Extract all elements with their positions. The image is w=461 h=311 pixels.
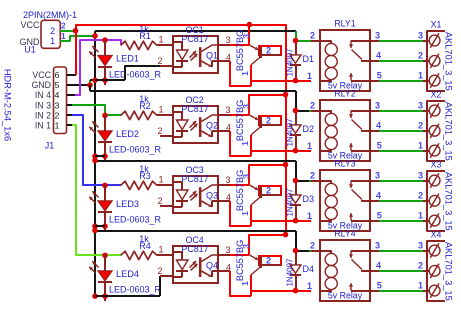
wire J1 pin3 stub xyxy=(67,104,72,106)
svg-text:IN 3: IN 3 xyxy=(35,100,51,110)
wire RLY2 contact stub 1 xyxy=(370,110,379,112)
OC2 collector xyxy=(201,115,217,122)
junction GND rail / channel 4 run xyxy=(92,228,98,234)
wire U1 pin1 to GND rail xyxy=(60,36,95,41)
svg-text:2: 2 xyxy=(266,45,271,55)
wire RLY3 contact stub 1 xyxy=(370,180,379,182)
svg-text:5v Relay: 5v Relay xyxy=(328,291,363,301)
svg-text:5: 5 xyxy=(55,80,60,90)
svg-text:X2: X2 xyxy=(431,90,442,100)
svg-text:GND: GND xyxy=(31,80,51,90)
junction LED2 cathode xyxy=(102,153,108,159)
wire RLY1 to X1 terminal 1 xyxy=(379,40,423,42)
relay RLY2 coil bottom lead xyxy=(320,150,331,151)
op-amp 0 placeholder OC3 box xyxy=(173,176,218,213)
svg-text:RLY1: RLY1 xyxy=(334,18,355,28)
svg-text:5: 5 xyxy=(377,210,382,220)
junction U1 GND on rail xyxy=(92,33,98,39)
op-amp 0 placeholder OC4 box xyxy=(173,246,218,283)
svg-text:PC817: PC817 xyxy=(181,244,208,254)
wire J1 pin6 stub xyxy=(67,74,76,76)
svg-text:1N4007: 1N4007 xyxy=(285,48,294,77)
svg-text:PC817: PC817 xyxy=(181,34,208,44)
wire J1 pin2 stub xyxy=(67,114,72,116)
junction GND rail LED4 xyxy=(92,293,98,299)
relay RLY2 NC contact xyxy=(351,150,370,152)
relay RLY3 common contact xyxy=(351,180,370,182)
relay RLY2 box xyxy=(320,100,370,161)
svg-text:X3: X3 xyxy=(431,160,442,170)
transistor Q2 base lead xyxy=(260,124,281,126)
svg-text:3: 3 xyxy=(225,105,230,115)
svg-text:3: 3 xyxy=(418,240,423,250)
junction D3 / RLY3 coil+ xyxy=(293,218,299,224)
junction VCC rail channel 2 xyxy=(283,92,289,98)
relay RLY4 coil top lead xyxy=(311,251,331,254)
OC3 collector xyxy=(201,185,217,192)
transistor Q2 base bar xyxy=(259,116,262,127)
relay RLY3 NC contact xyxy=(351,220,370,222)
wire OC4 pin2 to GND xyxy=(159,276,161,296)
wire RLY3 contact stub 3 xyxy=(370,220,379,222)
wire J1 pin4 stub xyxy=(67,94,75,96)
OC4 internal LED leads xyxy=(181,252,183,260)
relay RLY4 NC contact xyxy=(351,290,370,292)
wire GND run channel 3 xyxy=(95,160,296,162)
OC2 photon arrow 2 xyxy=(191,124,198,131)
wire OC3 pin4 to Q3 xyxy=(230,201,251,226)
connector X1 bracket xyxy=(427,31,445,91)
OC2 emitter xyxy=(201,131,207,135)
wire Q3 collector down xyxy=(250,205,252,226)
resistor R1 1k xyxy=(121,41,157,49)
wire RLY4 contact stub 2 xyxy=(370,270,379,272)
transistor Q3 base lead xyxy=(260,194,281,196)
svg-text:2: 2 xyxy=(310,100,315,110)
junction LED4 cathode xyxy=(102,293,108,299)
svg-text:2: 2 xyxy=(310,240,315,250)
svg-text:LED3: LED3 xyxy=(116,199,139,209)
junction D1 / RLY1 coil- xyxy=(293,38,299,44)
diode D4 top lead xyxy=(295,251,297,265)
diode D3 bottom lead xyxy=(295,205,297,221)
svg-text:2: 2 xyxy=(418,121,423,131)
transistor Q1 base bar xyxy=(259,46,262,57)
wire RLY4 pin2 (coil-) xyxy=(309,250,311,252)
svg-text:1: 1 xyxy=(158,174,163,184)
resistor R2 1k xyxy=(121,111,157,119)
wire GND drop to RLY4 coil xyxy=(296,231,309,251)
wire OC4 pin3 to Q4 emitter xyxy=(230,254,249,256)
LED1 cathode lead xyxy=(104,67,106,85)
OC3 pin3 stub xyxy=(218,184,230,186)
wire U1 pin2 stub (VCC) xyxy=(60,30,76,32)
svg-text:2: 2 xyxy=(418,261,423,271)
wire OC1 pin3 to Q1 emitter xyxy=(230,44,249,46)
wire VCC to Q1 emitter xyxy=(248,25,250,45)
svg-text:X1: X1 xyxy=(431,20,442,30)
svg-text:1: 1 xyxy=(240,281,250,286)
relay RLY1 coil bottom lead xyxy=(320,80,331,81)
svg-text:2: 2 xyxy=(418,51,423,61)
svg-text:3: 3 xyxy=(241,104,251,109)
wire GND jog horizontal xyxy=(90,79,95,81)
junction GND rail LED1 xyxy=(92,77,98,83)
svg-text:4: 4 xyxy=(376,51,381,61)
OC2 pin3 stub xyxy=(218,114,230,116)
svg-text:3: 3 xyxy=(225,35,230,45)
wire RLY3 to X3 terminal 2 xyxy=(379,200,423,202)
wire J1 pin5 stub (GND) xyxy=(67,84,90,86)
svg-text:1: 1 xyxy=(158,34,163,44)
wire Q4 collector down xyxy=(250,275,252,296)
wire RLY2 to X2 terminal 2 xyxy=(379,130,423,132)
wire GND run channel 1 xyxy=(95,30,296,32)
junction input / LED2 anode xyxy=(102,113,108,119)
relay RLY2 NO contact xyxy=(362,130,370,131)
connector X3 screw terminal 1 xyxy=(429,175,440,186)
wire RLY1 to X1 terminal 3 xyxy=(379,80,423,82)
relay RLY2 common contact xyxy=(351,110,370,112)
connector X1 screw terminal 3 xyxy=(429,75,440,86)
transistor Q3 base bar xyxy=(259,186,262,197)
wire RLY1 pin2 (coil-) xyxy=(296,40,311,42)
OC4 photon arrow 1 xyxy=(190,261,197,268)
relay RLY1 NC contact xyxy=(351,80,370,82)
wire Q3 collector to RLY3 pin1 xyxy=(251,220,311,222)
svg-text:LED2: LED2 xyxy=(116,129,139,139)
junction D2 / RLY2 coil- xyxy=(293,108,299,114)
junction D4 / RLY4 coil+ xyxy=(293,288,299,294)
LED2 cathode lead xyxy=(104,142,106,161)
relay RLY4 switch blade xyxy=(352,260,363,270)
junction D3 / RLY3 coil- xyxy=(293,178,299,184)
relay RLY3 box xyxy=(320,170,370,231)
svg-text:2: 2 xyxy=(310,170,315,180)
transistor Q4 collector diagonal xyxy=(251,267,260,275)
transistor Q2 pin2 box xyxy=(259,116,281,125)
OC4 pin4 stub xyxy=(218,270,230,272)
resistor R4 1k xyxy=(121,251,157,259)
wire Q1 collector to RLY1 pin1 xyxy=(251,80,311,82)
svg-text:Q1: Q1 xyxy=(206,51,218,61)
svg-text:R3: R3 xyxy=(139,171,151,181)
relay RLY4 NO contact xyxy=(362,270,370,271)
junction VCC rail channel 4 xyxy=(283,232,289,238)
svg-text:AKL701_3_15: AKL701_3_15 xyxy=(443,242,453,301)
svg-text:VCC: VCC xyxy=(32,70,51,80)
diode D4 cathode bar xyxy=(290,274,301,276)
svg-text:Q4: Q4 xyxy=(206,261,218,271)
connector X4 bracket xyxy=(427,241,445,301)
connector X4 screw terminal 1 xyxy=(429,245,440,256)
svg-text:D3: D3 xyxy=(303,194,315,204)
connector X2 bracket xyxy=(427,101,445,161)
junction input / LED4 anode xyxy=(102,253,108,259)
svg-text:1: 1 xyxy=(50,36,55,46)
LED1 cathode bar xyxy=(98,66,112,68)
svg-text:2PIN(2MM)-1: 2PIN(2MM)-1 xyxy=(23,10,77,20)
svg-text:RLY3: RLY3 xyxy=(334,158,355,168)
svg-text:4: 4 xyxy=(376,191,381,201)
LED2 emission arrow 1 xyxy=(92,121,98,127)
OC3 photon arrow 1 xyxy=(190,191,197,198)
wire J1 pin1 stub xyxy=(67,124,72,126)
transistor Q2 collector diagonal xyxy=(251,127,260,135)
wire RLY1 to X1 terminal 2 xyxy=(379,60,423,62)
connector X2 screw terminal 3 xyxy=(429,145,440,156)
connector U1 body xyxy=(41,20,60,48)
OC4 pin3 stub xyxy=(218,254,230,256)
wire OC3 pin3 to Q3 emitter xyxy=(230,184,249,186)
transistor Q3 collector diagonal xyxy=(251,197,260,205)
svg-text:2: 2 xyxy=(157,266,162,276)
wire LED1 cathode to GND rail xyxy=(95,79,125,81)
wire OC2 pin3 to Q2 emitter xyxy=(230,114,249,116)
svg-text:3: 3 xyxy=(241,244,251,249)
OC3 internal LED leads xyxy=(181,182,183,190)
diode D1 cathode bar xyxy=(290,64,301,66)
svg-text:IN 1: IN 1 xyxy=(35,120,51,130)
junction GND rail / channel 3 run xyxy=(92,158,98,164)
junction D1 / RLY1 coil+ xyxy=(293,78,299,84)
connector X3 screw terminal 3 xyxy=(429,215,440,226)
svg-text:D4: D4 xyxy=(303,264,315,274)
svg-text:4: 4 xyxy=(226,262,231,272)
OC1 photon arrow 1 xyxy=(190,51,197,58)
op-amp 0 placeholder OC1 box xyxy=(173,36,218,73)
svg-text:1: 1 xyxy=(307,71,312,81)
svg-text:U1: U1 xyxy=(24,45,36,55)
svg-text:LED-0603_R: LED-0603_R xyxy=(109,215,162,225)
OC1 emitter xyxy=(201,61,207,65)
OC2 pin4 stub xyxy=(218,130,230,132)
svg-text:3: 3 xyxy=(225,175,230,185)
svg-text:R2: R2 xyxy=(139,101,151,111)
LED4 emission arrow 2 xyxy=(89,267,95,273)
relay RLY3 coil top lead xyxy=(311,181,331,184)
wire Q1 collector down xyxy=(250,65,252,86)
svg-text:4: 4 xyxy=(376,121,381,131)
wire RLY4 contact stub 1 xyxy=(370,250,379,252)
wire GND run channel 2 xyxy=(90,90,296,92)
svg-text:LED4: LED4 xyxy=(116,269,139,279)
OC1 photon arrow 2 xyxy=(191,54,198,61)
svg-text:LED-0603_R: LED-0603_R xyxy=(109,145,162,155)
LED1 emission arrow 2 xyxy=(89,51,95,57)
wire RLY4 to X4 terminal 2 xyxy=(379,270,423,272)
wire GND drop to RLY1 coil xyxy=(295,31,297,41)
wire VCC to Q4 emitter xyxy=(249,235,286,255)
connector J1 body xyxy=(54,67,67,134)
connector X2 screw terminal 1 xyxy=(429,105,440,116)
OC3 photon arrow 2 xyxy=(191,194,198,201)
OC1 pin1 stub xyxy=(160,44,173,46)
wire RLY4 to X4 terminal 3 xyxy=(379,290,423,292)
svg-text:PC817: PC817 xyxy=(181,174,208,184)
LED3 emission arrow 1 xyxy=(92,191,98,197)
relay RLY3 switch blade xyxy=(352,190,363,200)
OC3 pin4 stub xyxy=(218,200,230,202)
OC4 pin1 stub xyxy=(160,254,173,256)
connector X2 screw terminal 2 xyxy=(429,125,440,136)
wire RLY3 contact stub 2 xyxy=(370,200,379,202)
svg-text:1: 1 xyxy=(158,244,163,254)
diode D3 top lead xyxy=(295,181,297,195)
relay RLY3 NO contact xyxy=(362,200,370,201)
svg-text:HDR-M-2.54_1x6: HDR-M-2.54_1x6 xyxy=(3,69,13,141)
junction D2 / RLY2 coil+ xyxy=(293,148,299,154)
relay RLY2 switch blade xyxy=(352,120,363,130)
svg-text:2: 2 xyxy=(310,30,315,40)
OC1 internal LED leads xyxy=(181,42,183,50)
LED4 cathode lead xyxy=(104,282,106,301)
svg-text:R4: R4 xyxy=(139,241,151,251)
wire RLY2 contact stub 3 xyxy=(370,150,379,152)
svg-text:1: 1 xyxy=(418,70,423,80)
svg-text:3: 3 xyxy=(375,30,380,40)
relay RLY3 coil bottom lead xyxy=(320,220,331,221)
svg-text:3: 3 xyxy=(418,170,423,180)
svg-text:1: 1 xyxy=(240,141,250,146)
svg-text:3: 3 xyxy=(225,245,230,255)
svg-text:1: 1 xyxy=(55,120,60,130)
svg-text:D1: D1 xyxy=(303,54,315,64)
relay RLY4 box xyxy=(320,240,370,301)
junction LED3 cathode xyxy=(102,223,108,229)
junction LED1 cathode xyxy=(102,77,108,83)
OC1 collector xyxy=(201,45,217,52)
LED3 cathode bar xyxy=(98,211,112,213)
wire Q2 collector to RLY2 pin1 xyxy=(251,150,311,152)
wire GND drop to RLY2 coil xyxy=(296,91,309,111)
svg-text:1N4007: 1N4007 xyxy=(285,118,294,147)
LED2 emission arrow 2 xyxy=(89,127,95,133)
svg-text:3: 3 xyxy=(241,174,251,179)
svg-text:2: 2 xyxy=(157,126,162,136)
svg-text:1: 1 xyxy=(240,211,250,216)
svg-text:1: 1 xyxy=(418,140,423,150)
LED2 anode lead xyxy=(104,115,106,131)
svg-text:2: 2 xyxy=(61,22,66,31)
wire RLY3 to X3 terminal 3 xyxy=(379,220,423,222)
svg-text:AKL701_3_15: AKL701_3_15 xyxy=(443,172,453,231)
junction D4 / RLY4 coil- xyxy=(293,248,299,254)
transistor Q1 base lead xyxy=(260,54,281,56)
wire IN2 (blue) J1 pin2 to R3 xyxy=(72,115,121,185)
OC4 photon arrow 2 xyxy=(191,264,198,271)
svg-text:IN 2: IN 2 xyxy=(35,110,51,120)
wire OC2 pin4 to Q2 xyxy=(230,131,251,156)
op-amp 0 placeholder OC2 box xyxy=(173,106,218,143)
relay RLY1 switch blade xyxy=(352,50,363,60)
svg-text:4: 4 xyxy=(226,122,231,132)
svg-text:6: 6 xyxy=(55,70,60,80)
relay RLY1 common contact xyxy=(351,40,370,42)
svg-text:1: 1 xyxy=(240,71,250,76)
OC4 pin2 stub xyxy=(160,275,173,277)
svg-text:LED1: LED1 xyxy=(116,54,139,64)
wire VCC rail from J1 pin6 across top and down right side xyxy=(76,25,286,235)
svg-text:3: 3 xyxy=(375,100,380,110)
svg-text:3: 3 xyxy=(375,240,380,250)
svg-text:Q2: Q2 xyxy=(206,121,218,131)
OC4 collector xyxy=(201,255,217,262)
svg-text:J1: J1 xyxy=(45,141,55,151)
OC3 pin2 stub xyxy=(160,205,173,207)
svg-text:1: 1 xyxy=(307,211,312,221)
wire VCC to Q2 emitter xyxy=(249,95,286,115)
wire RLY1 contact stub 1 xyxy=(370,40,379,42)
transistor Q1 emitter arrow xyxy=(249,45,258,50)
transistor Q3 emitter arrow xyxy=(249,185,258,190)
svg-text:LED-0603_R: LED-0603_R xyxy=(109,285,162,295)
wire RLY1 contact stub 3 xyxy=(370,80,379,82)
LED3 cathode lead xyxy=(104,212,106,231)
wire GND vertical rail xyxy=(94,31,96,295)
connector X1 screw terminal 2 xyxy=(429,55,440,66)
wire LED3 cathode to GND rail xyxy=(95,225,105,227)
wire OC4 pin4 to Q4 xyxy=(230,271,251,296)
transistor Q3 pin2 box xyxy=(259,186,281,195)
LED4 emission arrow 1 xyxy=(92,261,98,267)
diode D4 bottom lead xyxy=(295,275,297,291)
wire IN3 (green) J1 pin3 to R2 xyxy=(72,105,121,115)
wire OC1 pin4 to Q1 xyxy=(230,61,251,86)
svg-text:2: 2 xyxy=(157,196,162,206)
OC3 emitter xyxy=(201,201,207,205)
svg-text:3: 3 xyxy=(241,34,251,39)
wire Q4 collector to RLY4 pin1 xyxy=(251,290,311,292)
wire GND run channel 4 xyxy=(95,230,296,232)
junction J1 pin5 GND xyxy=(87,82,93,88)
OC3 pin1 stub xyxy=(160,184,173,186)
diode D2 top lead xyxy=(295,111,297,125)
OC2 internal LED leads xyxy=(181,112,183,120)
junction GND rail LED3 xyxy=(92,223,98,229)
transistor Q4 emitter arrow xyxy=(249,255,258,260)
svg-text:2: 2 xyxy=(266,185,271,195)
diode D1 bottom lead xyxy=(295,65,297,81)
relay RLY1 coil top lead xyxy=(311,41,331,44)
svg-text:1: 1 xyxy=(158,104,163,114)
svg-text:3: 3 xyxy=(375,170,380,180)
OC1 pin4 stub xyxy=(218,60,230,62)
OC1 pin2 stub xyxy=(160,65,173,67)
OC1 pin3 stub xyxy=(218,44,230,46)
svg-text:2: 2 xyxy=(266,255,271,265)
wire IN4 (purple) J1 pin4 to R1 xyxy=(75,40,121,95)
transistor Q4 pin2 box xyxy=(259,256,281,265)
svg-text:LED-0603_R: LED-0603_R xyxy=(109,69,162,79)
svg-text:PC817: PC817 xyxy=(181,104,208,114)
wire GND drop to channel2 gnd run xyxy=(89,85,91,91)
svg-text:RLY4: RLY4 xyxy=(334,228,355,238)
connector X3 screw terminal 2 xyxy=(429,195,440,206)
junction GND rail LED2 xyxy=(92,153,98,159)
OC2 photon arrow 1 xyxy=(190,121,197,128)
relay RLY1 NO contact xyxy=(362,60,370,61)
LED3 anode lead xyxy=(104,185,106,201)
OC2 pin2 stub xyxy=(160,135,173,137)
svg-text:IN 4: IN 4 xyxy=(35,90,51,100)
svg-text:1: 1 xyxy=(418,210,423,220)
wire RLY4 to X4 terminal 1 xyxy=(379,250,423,252)
diode D2 bottom lead xyxy=(295,135,297,151)
wire RLY3 pin2 (coil-) xyxy=(309,180,311,182)
relay RLY2 coil top lead xyxy=(311,111,331,114)
svg-text:5: 5 xyxy=(377,70,382,80)
